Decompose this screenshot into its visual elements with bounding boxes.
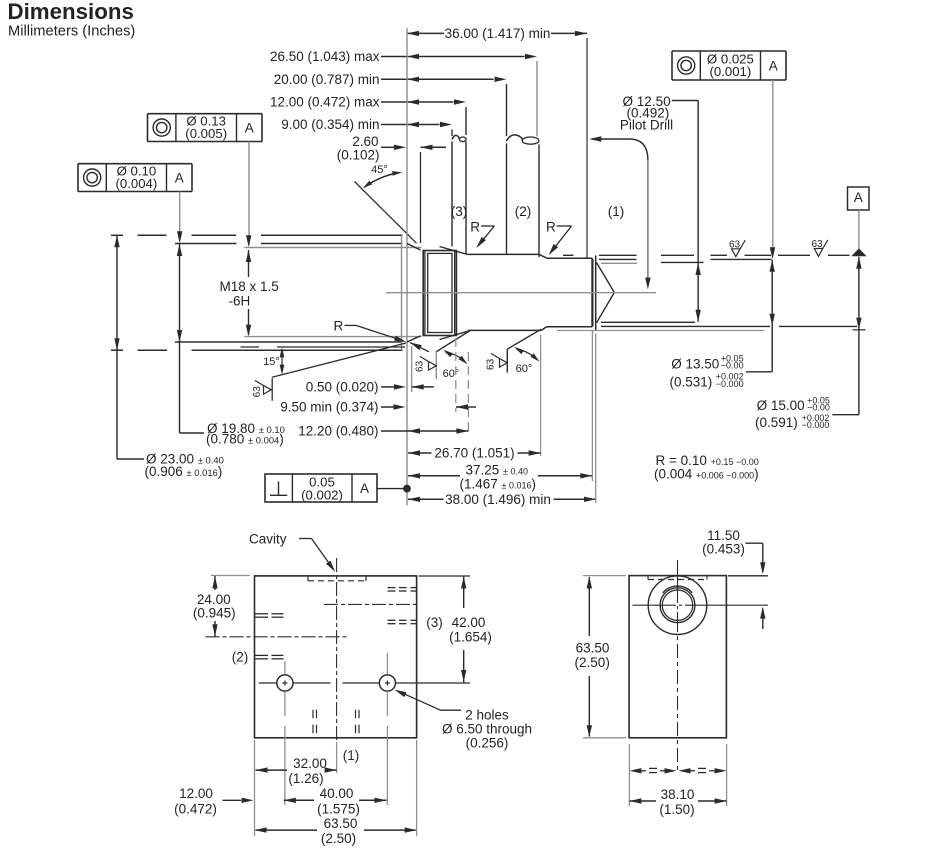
svg-text:(0.780 ± 0.004): (0.780 ± 0.004) bbox=[206, 432, 284, 447]
svg-text:(3): (3) bbox=[451, 204, 468, 219]
equal width marks row bbox=[633, 770, 646, 772]
extension line x=455.8 bbox=[455, 338, 457, 412]
dimension 24.00 (0.945) bbox=[211, 575, 250, 577]
port 3 hidden dashes right lower bbox=[388, 619, 396, 621]
dia 13.50 dimension bbox=[771, 260, 773, 372]
svg-text:Ø 13.50: Ø 13.50 bbox=[671, 356, 719, 371]
arrow at seat corner bbox=[410, 342, 429, 351]
bore dia 23.00 top edge bbox=[111, 234, 123, 236]
svg-text:63: 63 bbox=[415, 360, 426, 372]
feature control frame dia 0.13 A bbox=[148, 113, 263, 115]
thread crest top line bbox=[244, 247, 421, 249]
svg-text:−0.000: −0.000 bbox=[716, 379, 744, 389]
extension line x=587 port1 left bbox=[586, 38, 588, 259]
cone face vertical lines bbox=[591, 259, 593, 327]
side view hidden notch bbox=[647, 576, 649, 580]
svg-text:(0.004 +0.006 −0.000): (0.004 +0.006 −0.000) bbox=[654, 466, 759, 481]
svg-text:(0.004): (0.004) bbox=[116, 176, 158, 191]
side view cavity circles bbox=[648, 576, 707, 635]
port 2 hidden dashes left upper bbox=[255, 613, 268, 615]
face extension line x=407 bbox=[406, 28, 408, 506]
60 deg callout 2 bbox=[506, 349, 508, 373]
dimension 36.00 (1.417) min bbox=[407, 32, 444, 34]
svg-text:(0.945): (0.945) bbox=[193, 606, 236, 621]
datum A box bbox=[848, 187, 870, 210]
bore dia 15 bottom edge solid bbox=[468, 329, 541, 331]
front view block outline bbox=[255, 576, 417, 738]
step to seat top bbox=[539, 254, 547, 258]
dia 23.00 dimension bbox=[116, 235, 118, 459]
svg-text:Ø 6.50 through: Ø 6.50 through bbox=[442, 722, 532, 737]
svg-text:(0.256): (0.256) bbox=[466, 736, 509, 751]
svg-text:(2): (2) bbox=[515, 204, 532, 219]
bore dia 19.80 bottom edge bbox=[175, 341, 403, 343]
svg-text:9.00 (0.354) min: 9.00 (0.354) min bbox=[281, 117, 379, 132]
svg-text:(1): (1) bbox=[343, 748, 360, 763]
svg-text:12.20 (0.480): 12.20 (0.480) bbox=[298, 424, 378, 439]
svg-text:9.50 min (0.374): 9.50 min (0.374) bbox=[280, 400, 378, 415]
pilot dia 12.5 bottom segment bbox=[601, 321, 695, 323]
svg-text:(0.472): (0.472) bbox=[174, 801, 217, 816]
svg-text:12.00 (0.472) max: 12.00 (0.472) max bbox=[270, 95, 380, 110]
centerline bbox=[386, 292, 656, 294]
svg-text:R: R bbox=[546, 220, 556, 235]
svg-text:A: A bbox=[245, 120, 254, 135]
dimension 32.00 (1.26) bbox=[256, 769, 288, 771]
side view centerline extension right bbox=[722, 604, 768, 606]
svg-text:(0.531): (0.531) bbox=[670, 374, 713, 389]
svg-text:−0.000: −0.000 bbox=[802, 420, 830, 430]
bolt hole centerlines vertical bbox=[284, 661, 286, 675]
svg-text:(0.453): (0.453) bbox=[702, 541, 745, 556]
svg-text:(1.50): (1.50) bbox=[659, 802, 694, 817]
svg-text:60°: 60° bbox=[443, 368, 460, 380]
svg-text:(2.50): (2.50) bbox=[575, 655, 610, 670]
svg-text:(0.002): (0.002) bbox=[301, 487, 343, 502]
finish 63 mark on dia 15 bore 2 bbox=[814, 240, 828, 256]
leader from frame 0.025 bbox=[772, 80, 774, 256]
svg-text:(2.50): (2.50) bbox=[321, 831, 356, 846]
cone lower diagonal bbox=[597, 293, 615, 323]
side view lower extension lines bbox=[628, 744, 630, 806]
svg-text:A: A bbox=[769, 58, 778, 73]
cavity mouth hidden notch bbox=[307, 576, 309, 581]
front view horizontal dashdot upper bbox=[324, 603, 417, 605]
finish 63 mark on seat bbox=[271, 378, 273, 401]
15 deg reference dashes bbox=[241, 346, 260, 348]
svg-text:42.00: 42.00 bbox=[452, 615, 486, 630]
svg-text:Millimeters (Inches): Millimeters (Inches) bbox=[8, 23, 135, 39]
side view horizontal centerline bbox=[633, 604, 669, 606]
svg-text:38.10: 38.10 bbox=[661, 787, 695, 802]
feature control frame dia 0.10 A bbox=[78, 163, 192, 165]
svg-text:M18 x 1.5: M18 x 1.5 bbox=[220, 279, 279, 294]
port 2 tube lines bbox=[506, 84, 508, 136]
svg-text:(0.005): (0.005) bbox=[185, 126, 227, 141]
svg-text:45°: 45° bbox=[371, 164, 388, 176]
thread M18 dimension bbox=[248, 250, 250, 277]
svg-text:63: 63 bbox=[486, 358, 497, 370]
front view lower extension lines bbox=[254, 740, 256, 836]
cone face extension lines bbox=[591, 331, 593, 482]
pilot drill depth leader bbox=[592, 139, 648, 160]
svg-text:−0.00: −0.00 bbox=[807, 403, 830, 413]
15 deg double arrow bbox=[281, 350, 283, 373]
dimension 20.00 (0.787) min bbox=[381, 78, 494, 80]
svg-text:R: R bbox=[334, 319, 344, 334]
dimension 37.25 bbox=[408, 475, 460, 477]
thread runout chamfer bottom bbox=[440, 331, 469, 339]
svg-text:63.50: 63.50 bbox=[324, 816, 358, 831]
svg-text:(0.906 ± 0.016): (0.906 ± 0.016) bbox=[145, 464, 223, 479]
svg-text:(3): (3) bbox=[426, 615, 443, 630]
svg-text:38.00 (1.496) min: 38.00 (1.496) min bbox=[445, 492, 551, 507]
svg-text:(1.575): (1.575) bbox=[317, 801, 360, 816]
svg-text:63: 63 bbox=[729, 239, 741, 250]
dia 19.80 dimension bbox=[179, 244, 181, 433]
bore dia 15 hidden segments top bbox=[563, 254, 574, 256]
extension line x=420.5 chamfer bbox=[420, 152, 422, 243]
svg-text:(0.102): (0.102) bbox=[337, 148, 380, 163]
thread outer rectangle bbox=[423, 251, 456, 336]
dimension 2.60 (0.102) bbox=[381, 146, 395, 148]
dimension 63.50 (2.50) side view height bbox=[583, 575, 626, 577]
pilot diameter dimension line bbox=[697, 101, 699, 322]
svg-text:(1.654): (1.654) bbox=[449, 630, 492, 645]
bore dia 19.80 top edge bbox=[175, 243, 237, 245]
dimension 42.00 (1.654) bbox=[419, 575, 470, 577]
leader from frame 0.13 bbox=[248, 142, 250, 246]
counterbore face vertical bbox=[401, 235, 403, 350]
svg-text:Pilot Drill: Pilot Drill bbox=[620, 118, 673, 133]
port 2 break squiggle bbox=[507, 135, 523, 141]
svg-text:−0.00: −0.00 bbox=[721, 361, 744, 371]
datum A leader and filled triangle bbox=[858, 210, 860, 250]
svg-text:Ø 15.00: Ø 15.00 bbox=[757, 398, 805, 413]
svg-text:-6H: -6H bbox=[229, 294, 251, 309]
bore dia 13.5 hidden segments top bbox=[599, 258, 637, 260]
leader from frame 0.10 bbox=[179, 192, 181, 241]
svg-text:40.00: 40.00 bbox=[320, 786, 354, 801]
svg-text:Cavity: Cavity bbox=[249, 532, 287, 547]
svg-text:36.00 (1.417) min: 36.00 (1.417) min bbox=[445, 26, 551, 41]
45 deg chamfer construction line bbox=[355, 182, 417, 244]
svg-text:60°: 60° bbox=[516, 363, 533, 375]
svg-text:Dimensions: Dimensions bbox=[8, 0, 134, 24]
dimension 12.00 (0.472) max bbox=[381, 101, 454, 103]
perpendicularity frame 0.05 A bbox=[265, 474, 377, 502]
front view horizontal dashdot 24 level bbox=[206, 636, 348, 638]
mouth chamfer bottom bbox=[407, 336, 421, 342]
seat land top edge bbox=[547, 257, 593, 259]
svg-text:(1.467 ± 0.016): (1.467 ± 0.016) bbox=[460, 476, 537, 491]
svg-text:0.50 (0.020): 0.50 (0.020) bbox=[306, 380, 379, 395]
bore dia 23.00 bottom edge bbox=[111, 349, 123, 351]
side view vertical centerline bbox=[677, 560, 679, 593]
extension line x=468.4 bbox=[467, 352, 469, 436]
bore dia 15 top edge solid bbox=[468, 253, 539, 255]
port 2 hidden dashes left lower bbox=[255, 654, 268, 656]
bore dia 13.5 bottom segments bbox=[601, 325, 770, 327]
svg-text:12.00: 12.00 bbox=[179, 786, 213, 801]
feature control frame dia 0.025 A bbox=[672, 50, 786, 52]
dimension 26.50 (1.043) max bbox=[381, 56, 525, 58]
dimension 38.00 (1.496) min bbox=[408, 498, 444, 500]
front view vertical centerline bbox=[336, 558, 338, 741]
svg-text:20.00 (0.787) min: 20.00 (0.787) min bbox=[274, 72, 380, 87]
seat land bottom edge bbox=[547, 326, 593, 328]
svg-text:15°: 15° bbox=[263, 356, 280, 368]
bolt hole left bbox=[277, 675, 293, 691]
15 deg seat line bbox=[272, 343, 406, 377]
bolt hole centerline horizontal bbox=[259, 682, 277, 684]
svg-text:A: A bbox=[854, 190, 863, 205]
dimension 40.00 (1.575) bbox=[284, 799, 314, 801]
perpendicularity leader dot bbox=[377, 488, 404, 490]
port 3 break squiggle bbox=[452, 135, 459, 139]
60 deg callout 1 bbox=[435, 352, 437, 379]
bore dia 15 bottom continuation bbox=[557, 330, 764, 332]
extension line x=540.6 bbox=[540, 335, 542, 456]
thread inner rectangle bbox=[428, 253, 452, 332]
mouth chamfer top bbox=[407, 244, 421, 251]
svg-text:(0.591): (0.591) bbox=[755, 415, 798, 430]
pilot dia 12.5 hidden segments top bbox=[601, 262, 637, 264]
svg-text:(2): (2) bbox=[232, 650, 249, 665]
svg-text:63.50: 63.50 bbox=[576, 641, 610, 656]
dimension 26.70 (1.051) bbox=[408, 452, 432, 454]
svg-text:63: 63 bbox=[252, 386, 263, 398]
svg-text:26.50 (1.043) max: 26.50 (1.043) max bbox=[270, 49, 380, 64]
thread runout chamfer top bbox=[440, 247, 469, 255]
svg-text:26.70 (1.051): 26.70 (1.051) bbox=[434, 446, 514, 461]
svg-text:32.00: 32.00 bbox=[293, 756, 327, 771]
svg-text:2 holes: 2 holes bbox=[465, 708, 509, 723]
dimension 38.10 (1.50) bbox=[629, 800, 656, 802]
svg-text:A: A bbox=[175, 170, 184, 185]
dia 15.00 dimension bbox=[858, 257, 860, 415]
dimension 9.00 (0.354) min bbox=[381, 124, 440, 126]
port 3 tube lines bbox=[451, 130, 453, 137]
svg-text:(1.26): (1.26) bbox=[288, 771, 323, 786]
finish 63 mark on dia 15 bore 1 bbox=[732, 240, 746, 256]
svg-text:(0.001): (0.001) bbox=[710, 64, 752, 79]
svg-text:63: 63 bbox=[811, 239, 823, 250]
extension line x=411.7 bbox=[411, 346, 413, 392]
cone upper diagonal bbox=[597, 263, 615, 293]
port 3 hidden dashes right upper bbox=[388, 587, 396, 589]
bolt hole right bbox=[379, 675, 395, 691]
step to seat bottom bbox=[541, 327, 546, 331]
dimension 63.50 (2.50) bbox=[256, 829, 318, 831]
thread crest bottom line bbox=[244, 336, 421, 338]
svg-text:A: A bbox=[360, 481, 369, 496]
extension line x=537 bbox=[536, 61, 538, 137]
svg-text:R: R bbox=[470, 220, 480, 235]
port 1 hidden dashes bbox=[312, 710, 314, 734]
svg-text:(1): (1) bbox=[608, 204, 625, 219]
side view block outline bbox=[629, 576, 726, 738]
